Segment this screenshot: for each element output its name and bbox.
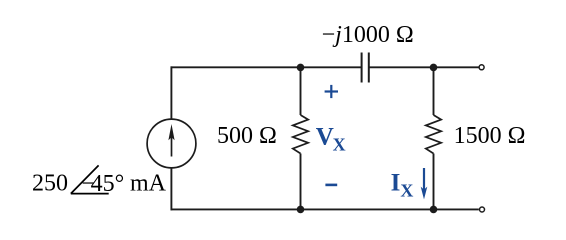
wire right branch upper (top node to R2 top) — [433, 67, 435, 115]
capacitor C1 plates — [362, 53, 369, 83]
svg-text:mA: mA — [130, 170, 167, 196]
wire top from capacitor right plate to top terminal — [369, 66, 479, 68]
open terminal top — [479, 65, 484, 70]
wire top from left corner to capacitor left plate — [171, 66, 362, 68]
wire right branch lower (R2 bottom to bottom node) — [433, 154, 435, 210]
svg-text:IX: IX — [391, 170, 414, 201]
minus sign of Vx — [325, 184, 337, 187]
resistor R2 1500 ohm zigzag — [426, 115, 441, 154]
svg-text:1500 Ω: 1500 Ω — [454, 123, 526, 149]
current arrow Ix downward — [421, 168, 428, 199]
resistor R1 500 ohm zigzag — [293, 115, 308, 154]
wire left vertical upper (corner to source top) — [170, 66, 172, 119]
svg-text:250: 250 — [32, 170, 68, 196]
svg-text:500 Ω: 500 Ω — [217, 123, 277, 149]
node junction dot bottom right — [430, 206, 438, 214]
node junction dot bottom middle — [297, 206, 305, 214]
source value label 250 angle -45 deg mA — [32, 165, 167, 196]
svg-text:−j1000 Ω: −j1000 Ω — [322, 22, 414, 48]
wire left vertical lower (source bottom to bottom wire) — [170, 168, 172, 211]
open terminal bottom — [480, 207, 485, 212]
current source I1 — [147, 119, 196, 168]
svg-text:VX: VX — [316, 124, 346, 155]
plus sign of Vx — [325, 85, 338, 98]
node junction dot top right — [430, 64, 438, 72]
svg-text:45°: 45° — [91, 171, 125, 197]
wire middle branch lower (R1 bottom to bottom node) — [300, 154, 302, 210]
node junction dot top middle — [297, 64, 305, 72]
wire bottom rail — [171, 208, 479, 210]
wire middle branch upper (top node to R1 top) — [300, 67, 302, 115]
